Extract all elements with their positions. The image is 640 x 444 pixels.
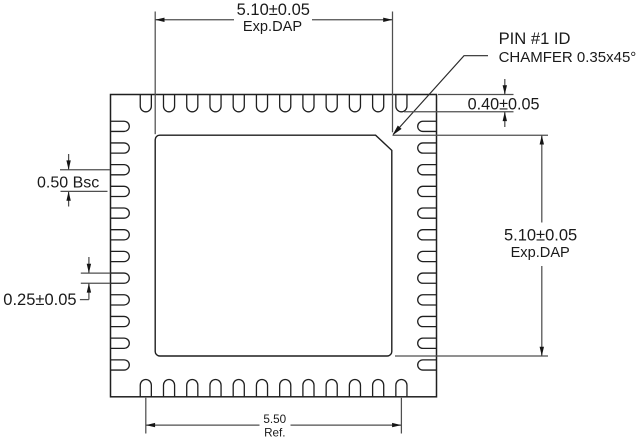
0.50 Bsc extension line (pad 3 centreline) <box>60 169 110 171</box>
pad 2 (left column) <box>111 143 130 153</box>
pad 7 (right column) <box>418 251 437 261</box>
0.25 dimension leader jog to text <box>80 299 89 301</box>
pad 11 (left column) <box>111 338 130 348</box>
pad 2 (top row) <box>163 95 174 112</box>
pad 2 (bottom row) <box>163 380 174 397</box>
0.40 dimension upper arrow line <box>504 79 506 95</box>
svg-text:PIN #1 ID: PIN #1 ID <box>499 29 571 48</box>
0.50 Bsc upper arrowhead <box>66 160 70 169</box>
pad 5 (top row) <box>233 95 244 112</box>
pad 9 (top row) <box>326 95 337 112</box>
0.40 dimension upper arrowhead <box>503 85 507 94</box>
0.40 dimension extension line (package top edge) <box>438 94 514 96</box>
pad 8 (right column) <box>418 273 437 283</box>
pad 1 (bottom row) <box>140 380 151 397</box>
pad 8 (left column) <box>111 273 130 283</box>
pin 1 ID leader line <box>393 56 488 135</box>
svg-text:5.50: 5.50 <box>263 413 286 426</box>
pad 4 (top row) <box>210 95 221 112</box>
0.40 dimension extension line (lead tip) <box>404 111 514 113</box>
pad 3 (bottom row) <box>187 380 198 397</box>
0.25 dimension upper arrowhead <box>87 264 91 273</box>
pad 10 (bottom row) <box>349 380 360 397</box>
pad 4 (right column) <box>418 186 437 196</box>
QFN package body outline <box>111 95 437 397</box>
pad 7 (top row) <box>280 95 291 112</box>
svg-text:Exp.DAP: Exp.DAP <box>511 245 570 261</box>
bottom dimension left arrowhead <box>146 423 155 427</box>
0.50 Bsc lower arrow line <box>68 191 70 206</box>
top dimension right arrowhead <box>383 18 392 22</box>
pad 3 (right column) <box>418 165 437 175</box>
0.40 dimension lower arrow line <box>504 112 506 127</box>
pad 12 (top row) <box>396 95 407 112</box>
pad 12 (right column) <box>418 360 437 370</box>
0.50 Bsc upper arrow line <box>68 154 70 170</box>
svg-text:0.40±0.05: 0.40±0.05 <box>468 95 540 113</box>
pin 1 ID leader arrowhead <box>392 126 401 136</box>
top dimension line (5.10 Exp.DAP) <box>155 19 234 21</box>
exposed DAP (die attach pad) with pin 1 chamfer <box>155 135 392 356</box>
0.50 Bsc lower arrowhead <box>66 191 70 200</box>
0.25 dimension lower arrow line <box>88 283 90 299</box>
top dimension left arrowhead <box>155 18 164 22</box>
svg-text:Ref.: Ref. <box>264 427 285 440</box>
pad 6 (top row) <box>256 95 267 112</box>
pad 1 (top row) <box>140 95 151 112</box>
pad 11 (right column) <box>418 338 437 348</box>
0.50 Bsc extension line (pad 4 centreline) <box>61 190 108 192</box>
pad 11 (bottom row) <box>373 380 384 397</box>
pad 9 (bottom row) <box>326 380 337 397</box>
pad 1 (left column) <box>111 121 130 131</box>
pad 8 (bottom row) <box>303 380 314 397</box>
pad 1 (right column) <box>418 121 437 131</box>
pad 6 (bottom row) <box>256 380 267 397</box>
right dimension extension line (DAP top) <box>393 134 549 136</box>
pad 4 (left column) <box>111 186 130 196</box>
svg-text:Exp.DAP: Exp.DAP <box>243 19 302 35</box>
pad 3 (top row) <box>187 95 198 112</box>
pad 12 (bottom row) <box>396 380 407 397</box>
right dimension top arrowhead <box>540 135 544 144</box>
pad 3 (left column) <box>111 165 130 175</box>
0.25 dimension upper arrow line <box>88 257 90 273</box>
pad 5 (bottom row) <box>233 380 244 397</box>
top dimension extension line (right, chamfer corner) <box>392 12 394 133</box>
pad 10 (left column) <box>111 316 130 326</box>
svg-text:5.10±0.05: 5.10±0.05 <box>237 1 310 19</box>
right dimension line (5.10 Exp.DAP vertical) <box>541 135 543 222</box>
svg-text:5.10±0.05: 5.10±0.05 <box>504 227 577 245</box>
pad 9 (left column) <box>111 295 130 305</box>
right dimension bottom arrowhead <box>540 347 544 356</box>
0.25 dimension lower arrowhead <box>87 283 91 292</box>
svg-text:0.50 Bsc: 0.50 Bsc <box>37 174 99 191</box>
svg-text:CHAMFER 0.35x45°: CHAMFER 0.35x45° <box>499 49 637 66</box>
bottom dimension right arrowhead <box>392 423 401 427</box>
0.25 dimension extension line (pad 8 top) <box>81 272 111 274</box>
pad 7 (bottom row) <box>280 380 291 397</box>
0.40 dimension lower arrowhead <box>503 112 507 121</box>
pad 8 (top row) <box>303 95 314 112</box>
bottom dimension extension line (pad 1 centreline) <box>145 398 147 434</box>
pad 2 (right column) <box>418 143 437 153</box>
right dimension extension line (DAP bottom) <box>395 355 548 357</box>
pad 11 (top row) <box>373 95 384 112</box>
svg-text:0.25±0.05: 0.25±0.05 <box>3 291 76 309</box>
pad 6 (right column) <box>418 230 437 240</box>
0.25 dimension extension line (pad 8 bottom) <box>81 282 111 284</box>
pad 5 (left column) <box>111 208 130 218</box>
bottom dimension line (5.50 Ref.) <box>146 424 260 426</box>
top dimension extension line (left, DAP left edge) <box>154 12 156 135</box>
pad 6 (left column) <box>111 230 130 240</box>
pad 7 (left column) <box>111 251 130 261</box>
pad 12 (left column) <box>111 360 130 370</box>
pad 4 (bottom row) <box>210 379 221 396</box>
pad 10 (top row) <box>349 95 360 112</box>
pad 5 (right column) <box>418 208 437 218</box>
pad 10 (right column) <box>418 316 437 326</box>
pad 9 (right column) <box>418 295 437 305</box>
bottom dimension extension line (pad 12 centreline) <box>400 398 402 434</box>
